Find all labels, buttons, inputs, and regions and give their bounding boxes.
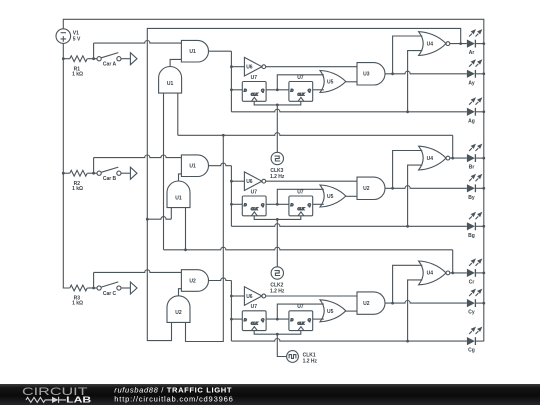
svg-text:rufusbad88 / TRAFFIC LIGHT: rufusbad88 / TRAFFIC LIGHT <box>114 385 232 394</box>
svg-text:Br: Br <box>469 165 475 171</box>
svg-text:Car B: Car B <box>103 176 117 182</box>
svg-text:U4: U4 <box>427 41 434 47</box>
svg-text:Cy: Cy <box>468 310 475 316</box>
svg-text:U6: U6 <box>246 179 253 185</box>
svg-text:By: By <box>468 195 475 201</box>
svg-text:1 kΩ: 1 kΩ <box>72 71 83 77</box>
svg-text:U7: U7 <box>251 304 258 310</box>
svg-text:Cg: Cg <box>468 348 475 354</box>
svg-text:U1: U1 <box>175 195 182 201</box>
svg-text:U2: U2 <box>363 186 370 192</box>
svg-text:U2: U2 <box>189 278 196 284</box>
svg-text:1 kΩ: 1 kΩ <box>72 186 83 192</box>
svg-text:U1: U1 <box>189 49 196 55</box>
svg-text:U6: U6 <box>246 65 253 71</box>
svg-text:U2: U2 <box>363 301 370 307</box>
svg-text:1 kΩ: 1 kΩ <box>72 300 83 306</box>
svg-text:U5: U5 <box>327 309 334 315</box>
svg-text:Bg: Bg <box>468 233 475 239</box>
svg-text:U7: U7 <box>297 189 304 195</box>
svg-text:U1: U1 <box>167 81 174 87</box>
svg-text:U5: U5 <box>327 194 334 200</box>
svg-text:U2: U2 <box>175 310 182 316</box>
svg-text:5 V: 5 V <box>73 37 81 43</box>
svg-text:U5: U5 <box>327 80 334 86</box>
svg-text:U6: U6 <box>246 294 253 300</box>
svg-text:U3: U3 <box>363 72 370 78</box>
svg-text:Ag: Ag <box>468 118 475 124</box>
svg-text:U7: U7 <box>251 75 258 81</box>
svg-text:Car C: Car C <box>103 291 117 297</box>
svg-text:Ar: Ar <box>469 50 475 56</box>
svg-text:Ay: Ay <box>468 80 474 86</box>
svg-text:LAB: LAB <box>66 395 91 405</box>
svg-text:U7: U7 <box>297 304 304 310</box>
svg-text:U4: U4 <box>427 271 434 277</box>
svg-text:1.2 Hz: 1.2 Hz <box>303 358 318 364</box>
svg-text:U4: U4 <box>427 156 434 162</box>
svg-text:http://circuitlab.com/cd93966: http://circuitlab.com/cd93966 <box>114 395 233 404</box>
svg-text:U1: U1 <box>189 164 196 170</box>
svg-text:Cr: Cr <box>469 280 475 286</box>
svg-text:Car A: Car A <box>103 62 117 68</box>
svg-text:U7: U7 <box>251 189 258 195</box>
svg-text:1.2 Hz: 1.2 Hz <box>270 288 285 294</box>
svg-text:1.2 Hz: 1.2 Hz <box>270 174 285 180</box>
svg-text:U7: U7 <box>297 75 304 81</box>
